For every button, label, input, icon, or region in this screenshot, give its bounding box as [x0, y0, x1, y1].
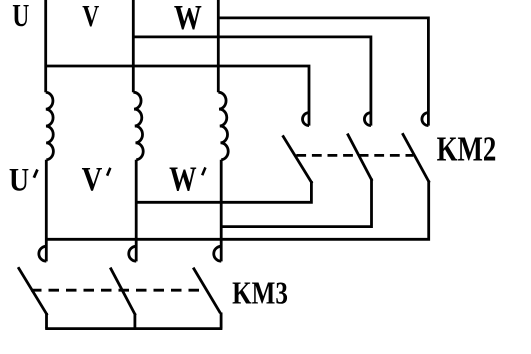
winding coil U	[46, 92, 54, 159]
wire KM2 pole 1 to V-prime	[135, 181, 311, 202]
svg-text:W: W	[169, 160, 197, 199]
winding coil W	[218, 92, 228, 159]
svg-text:V: V	[82, 0, 99, 33]
prime mark of U-prime	[33, 169, 39, 178]
KM3 linkage dashed line	[31, 289, 201, 292]
wire KM2 pole 2 to W-prime	[220, 179, 372, 227]
wire W to KM2 pole 3	[218, 18, 428, 126]
wire KM3 pole 3 blade to star bus	[220, 313, 223, 329]
prime mark of W-prime	[201, 167, 207, 176]
contactor KM2 pole 1 fixed contact hook	[303, 113, 310, 126]
wire KM2 pole 3 to U-prime	[45, 181, 429, 240]
prime mark of V-prime	[106, 167, 112, 176]
wire phase W-prime vertical	[220, 160, 223, 262]
svg-text:U: U	[12, 0, 29, 34]
contactor KM2 pole 1 moving blade	[283, 137, 311, 183]
wire phase U-prime vertical	[45, 160, 48, 262]
contactor KM3 pole 1 fixed contact hook	[39, 246, 46, 261]
contactor KM3 pole 3 fixed contact hook	[214, 246, 221, 261]
contactor KM3 pole 1 moving blade	[19, 268, 47, 314]
contactor KM2 pole 2 moving blade	[348, 135, 372, 180]
KM2 linkage dashed line	[296, 154, 413, 157]
wire V to KM2 pole 2	[133, 37, 371, 126]
contactor KM3 pole 3 moving blade	[193, 268, 220, 314]
wire KM3 pole 2 blade to star bus	[133, 314, 136, 329]
contactor KM2 pole 2 fixed contact hook	[364, 113, 371, 126]
svg-text:U: U	[9, 162, 29, 199]
contactor KM2 pole 3 fixed contact hook	[422, 113, 429, 126]
svg-text:KM2: KM2	[437, 129, 497, 168]
svg-text:V: V	[82, 160, 103, 198]
contactor KM2 pole 3 moving blade	[403, 134, 429, 181]
wire phase V vertical	[132, 0, 135, 92]
wire phase W vertical	[217, 0, 220, 92]
contactor KM3 pole 2 fixed contact hook	[129, 246, 136, 261]
wire KM3 pole 1 blade to star bus	[45, 313, 48, 329]
contactor KM3 pole 2 moving blade	[111, 269, 135, 314]
star point bus wire	[45, 327, 222, 330]
wire phase V-prime vertical	[135, 160, 138, 262]
svg-text:KM3: KM3	[232, 276, 288, 312]
wire phase U vertical	[44, 0, 47, 92]
svg-text:W: W	[174, 0, 202, 37]
winding coil V	[133, 92, 143, 159]
wire U to KM2 pole 1	[46, 66, 309, 126]
